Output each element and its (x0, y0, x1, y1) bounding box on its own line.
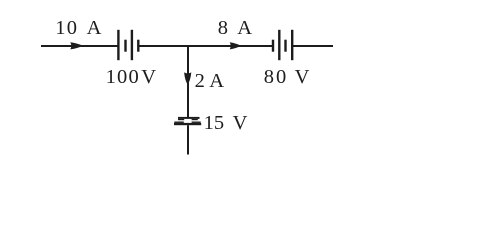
wire left segment (41, 45, 118, 47)
wire bottom segment (187, 125, 189, 154)
wire right segment (292, 45, 333, 47)
svg-text:V: V (295, 66, 310, 88)
svg-text:10: 10 (55, 17, 78, 39)
svg-text:V: V (141, 66, 156, 88)
battery 80 V plate short1 (272, 40, 274, 52)
svg-text:15: 15 (204, 112, 225, 134)
battery 100 V plate long1 (117, 30, 119, 60)
svg-text:2: 2 (195, 70, 205, 92)
arrow 10 A (70, 42, 82, 49)
battery 15 V bottom plate (174, 122, 184, 123)
wire middle segment (138, 45, 273, 47)
svg-text:8: 8 (218, 17, 228, 39)
arrow 8 A (230, 42, 241, 49)
svg-text:A: A (87, 17, 102, 39)
battery 15 V top plate (178, 117, 200, 119)
battery 80 V plate short2 (284, 40, 286, 52)
arrow 2 A (184, 72, 191, 84)
svg-text:80: 80 (264, 66, 289, 88)
battery 80 V plate long1 (278, 30, 280, 60)
svg-text:100: 100 (106, 66, 140, 88)
battery 100 V plate short1 (124, 40, 126, 52)
svg-text:A: A (237, 17, 252, 39)
svg-text:A: A (209, 70, 224, 92)
battery 100 V plate short2 (137, 40, 139, 52)
battery 80 V plate long2 (291, 30, 293, 60)
battery 100 V plate long2 (131, 30, 133, 60)
svg-text:V: V (233, 112, 248, 134)
wire vertical segment (T-junction node to 15 V battery) (187, 46, 189, 117)
